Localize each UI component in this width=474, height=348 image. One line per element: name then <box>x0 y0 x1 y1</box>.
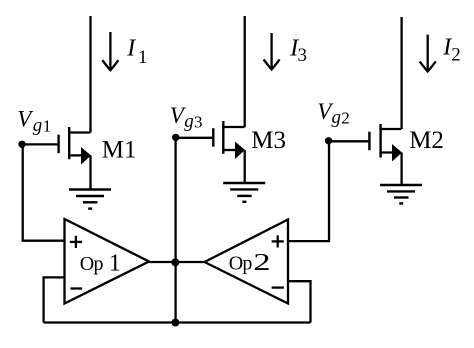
wire bottom feedback <box>44 321 311 323</box>
svg-text:3: 3 <box>194 113 203 132</box>
label I2 <box>442 35 461 66</box>
svg-text:O: O <box>80 253 94 275</box>
Op2 minus sign <box>272 286 284 288</box>
label Vg1 <box>17 107 51 137</box>
Op2 plus sign <box>272 235 284 247</box>
ground under M3 <box>223 183 265 202</box>
svg-text:O: O <box>229 253 243 275</box>
label Vg3 <box>170 103 203 132</box>
node Vg1 dot <box>18 141 25 148</box>
wire center vertical Vg3 to bottom <box>174 139 176 323</box>
Op1 plus sign <box>70 236 82 248</box>
ground under M1 <box>69 190 111 209</box>
svg-text:p: p <box>242 253 252 275</box>
svg-text:1: 1 <box>109 250 121 276</box>
label Vg2 <box>317 99 350 128</box>
svg-text:I: I <box>126 36 136 62</box>
Op1 minus sign <box>70 287 82 289</box>
current arrow I1 <box>102 32 118 70</box>
svg-text:g: g <box>33 115 43 136</box>
transistor M2 <box>329 124 402 185</box>
wire Op1 - input feedback <box>44 277 65 322</box>
svg-text:2: 2 <box>341 109 350 128</box>
svg-text:p: p <box>94 253 104 275</box>
wire Vg1 to Op1 + input <box>23 144 65 240</box>
wire M3 drain vertical <box>244 16 246 127</box>
wire M1 drain vertical <box>89 16 91 133</box>
svg-text:2: 2 <box>451 44 461 65</box>
svg-text:M3: M3 <box>251 127 286 154</box>
wire M2 drain vertical <box>400 17 402 129</box>
transistor M3 <box>176 121 245 183</box>
transistor M1 <box>22 127 91 190</box>
current arrow I3 <box>264 33 280 69</box>
label Op2 <box>229 249 271 275</box>
label Op1 <box>80 250 121 276</box>
svg-text:g: g <box>184 111 194 132</box>
label I3 <box>289 35 307 66</box>
svg-text:M1: M1 <box>102 136 137 163</box>
op-amp Op2 <box>205 220 289 304</box>
svg-text:M2: M2 <box>409 127 444 154</box>
node bottom junction dot <box>171 319 179 327</box>
label I1 <box>126 36 147 68</box>
current arrow I2 <box>420 35 436 72</box>
ground under M2 <box>380 185 422 203</box>
svg-text:1: 1 <box>43 117 52 136</box>
node Vg2 dot <box>325 137 332 144</box>
svg-text:g: g <box>332 107 342 128</box>
svg-text:2: 2 <box>253 249 270 275</box>
wire op-amp outputs junction <box>149 261 205 263</box>
svg-text:3: 3 <box>298 45 308 66</box>
wire Op2 - input feedback <box>288 281 311 322</box>
op-amp Op1 <box>65 219 150 304</box>
node Vg3 dot <box>172 134 179 141</box>
svg-text:1: 1 <box>138 47 148 68</box>
wire Op2 + input to Vg2 <box>288 142 329 241</box>
node output junction dot <box>171 258 179 266</box>
